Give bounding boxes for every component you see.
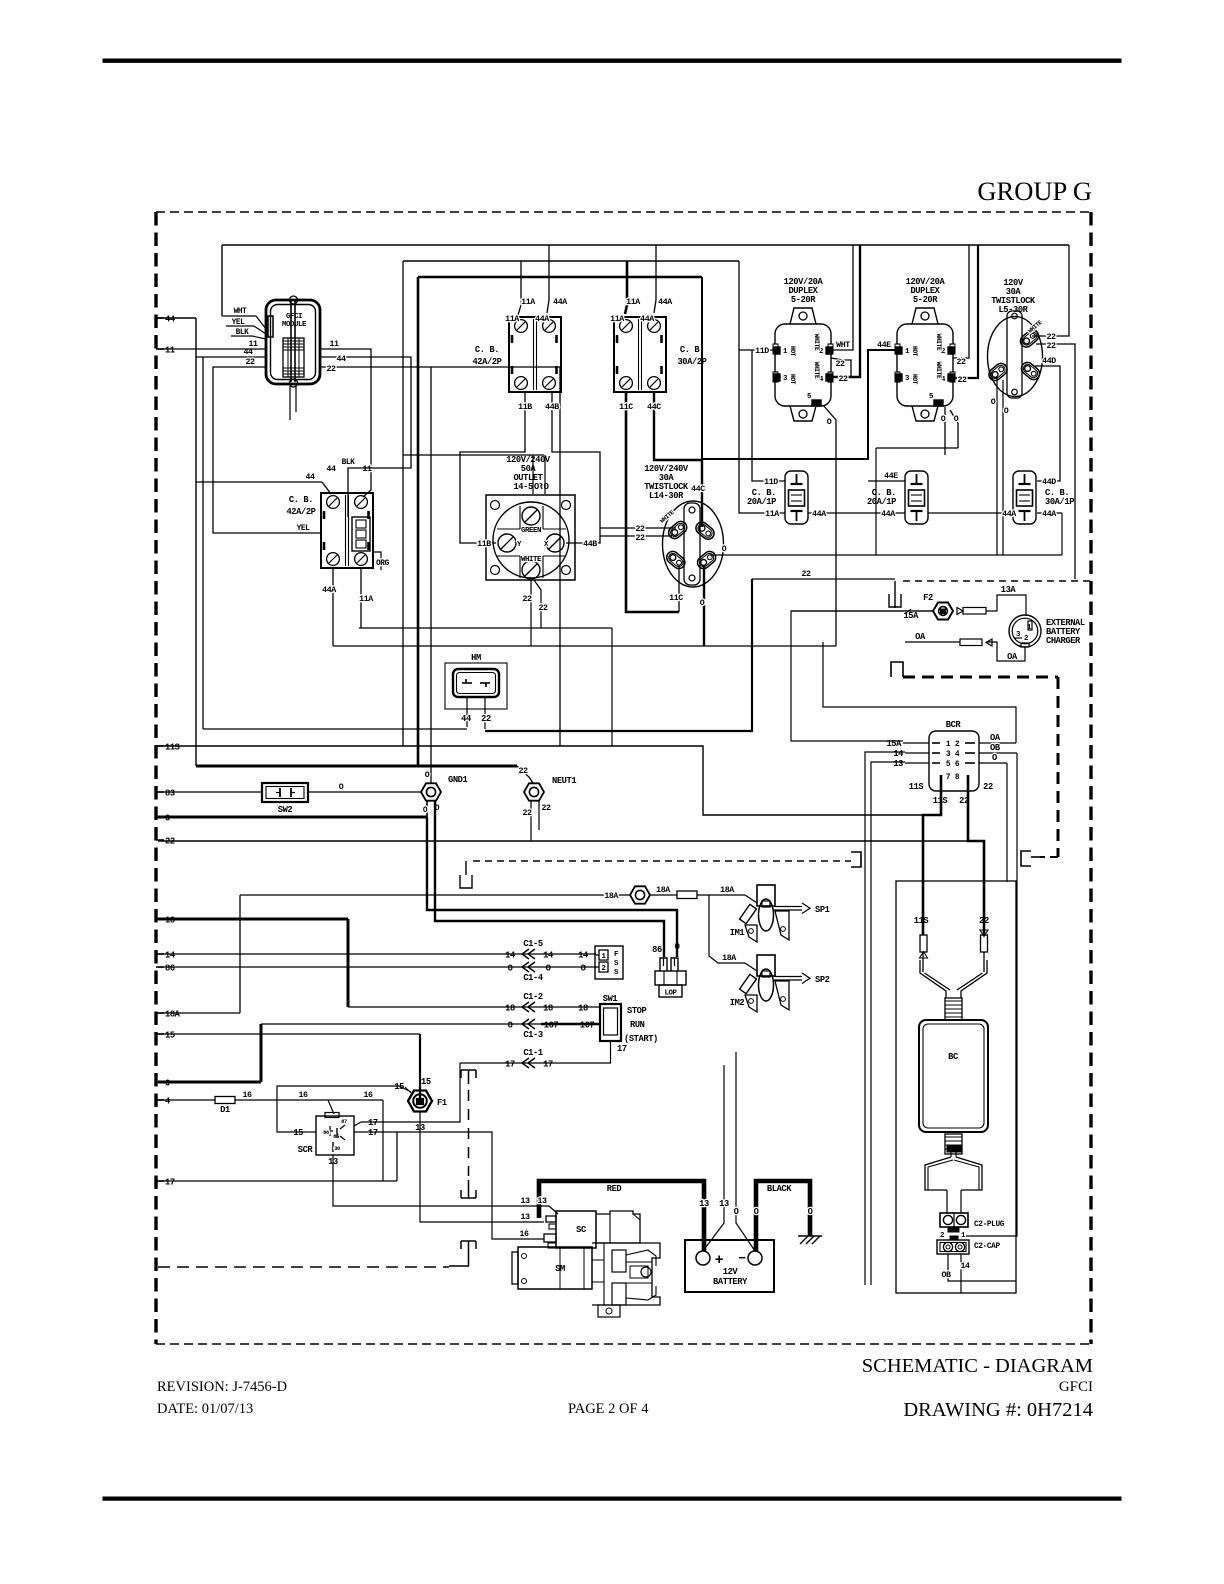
wire L5-30R 44D pin (1035, 366, 1060, 481)
svg-text:WHT: WHT (836, 341, 850, 350)
wire outlet top feed (402, 261, 404, 746)
svg-text:86: 86 (165, 964, 175, 974)
svg-text:22: 22 (522, 809, 532, 818)
dashed return bottom left (158, 1266, 449, 1268)
fuse F2 arrow and element (957, 608, 963, 615)
ignition module IM1 capsule (759, 899, 774, 931)
svg-text:13: 13 (537, 1197, 547, 1206)
svg-text:5-20R: 5-20R (791, 295, 816, 305)
wire label BLK leader (231, 335, 252, 337)
svg-text:15: 15 (394, 1082, 404, 1092)
svg-text:44A: 44A (640, 315, 654, 324)
wire net 44E to breaker 20A/1P second (868, 480, 905, 482)
fuse element on 18A wire (677, 891, 697, 899)
svg-text:GREEN: GREEN (521, 527, 541, 535)
starter detail lines (592, 1259, 604, 1261)
twistlock L5-30R slot bottom-left (986, 361, 1009, 383)
svg-text:SCHEMATIC - DIAGRAM: SCHEMATIC - DIAGRAM (862, 1355, 1093, 1377)
wire net 11D down to breaker 20A/1P (752, 350, 785, 481)
left border net stub 0 (156, 816, 164, 818)
circuit breaker 42A/2P screws (515, 320, 528, 333)
svg-text:14: 14 (578, 951, 588, 961)
wire 15 row (158, 1033, 420, 1035)
connector C1-2 chevrons (522, 1002, 529, 1012)
wire border 44 net vertical (158, 317, 196, 319)
svg-text:GND1: GND1 (448, 775, 468, 785)
svg-text:44A: 44A (812, 510, 826, 519)
svg-text:11: 11 (329, 340, 339, 349)
wire L14-30R 0 to right (710, 554, 876, 556)
svg-text:44C: 44C (647, 403, 661, 412)
connector BCR pin row 3 4 (932, 752, 940, 754)
wire L14-30R ground pin heavy (703, 565, 705, 646)
svg-text:11D: 11D (764, 478, 778, 487)
svg-text:42A/2P: 42A/2P (472, 357, 501, 367)
connector BCR left pin labels (903, 742, 929, 744)
svg-text:11: 11 (165, 346, 175, 356)
svg-text:WHITE: WHITE (935, 334, 942, 351)
wire label WHT leader (222, 315, 256, 317)
fuse F1 holder (408, 1091, 432, 1112)
wire 18A to IM1 (697, 894, 745, 896)
svg-text:2: 2 (940, 1232, 944, 1240)
wire RED heavy (539, 1181, 704, 1251)
fuse element on 22 lead (981, 935, 988, 952)
connector BCR right pin labels (979, 742, 1016, 744)
connector C2-CAP (937, 1240, 969, 1254)
spark plug output arrow SP2 (774, 976, 802, 978)
svg-text:42A/2P: 42A/2P (286, 507, 315, 517)
wire border 17 net (158, 1180, 397, 1182)
schematic dashed border bottom (156, 1343, 1091, 1345)
GFCI module top mounting circle (290, 296, 298, 304)
circuit breaker 30A/2P divider (638, 319, 640, 390)
wire GND1 top vertical (430, 367, 432, 783)
svg-text:14: 14 (960, 1262, 970, 1271)
svg-text:1: 1 (946, 740, 951, 749)
svg-text:22: 22 (635, 534, 645, 543)
svg-text:44: 44 (326, 465, 336, 474)
svg-text:44A: 44A (658, 298, 672, 307)
svg-text:14: 14 (165, 951, 175, 961)
svg-text:SC: SC (576, 1225, 586, 1235)
svg-text:O: O (700, 599, 705, 608)
wire CB3 bottom 44A (332, 568, 334, 646)
outlet 14-50R face circle (493, 502, 569, 578)
svg-text:13A: 13A (1001, 585, 1017, 595)
connector C1-4 chevrons (522, 962, 529, 972)
svg-text:O: O (991, 398, 996, 407)
svg-text:11A: 11A (610, 315, 624, 324)
svg-text:18: 18 (543, 1004, 553, 1014)
twistlock L5-30R slot top-right (1018, 327, 1041, 349)
ignition module IM2 right flag (775, 981, 789, 1010)
wire duplex1 pin4 22 heavy (831, 245, 860, 377)
wire border 11 into GFCI (158, 348, 266, 350)
svg-text:13: 13 (520, 1197, 530, 1206)
svg-text:86: 86 (323, 1129, 329, 1136)
svg-text:4: 4 (955, 750, 960, 759)
svg-text:HOT: HOT (911, 346, 918, 357)
wire CB1 11A feed (518, 261, 521, 315)
connector BCR pin row 1 2 (932, 742, 940, 744)
svg-text:17: 17 (165, 1178, 175, 1188)
svg-text:20A/1P: 20A/1P (747, 497, 776, 507)
circuit breaker 30A/2P box (614, 317, 666, 392)
left border net stub 11S (156, 745, 164, 747)
wire duplex1 pin5 ground (823, 405, 836, 646)
wire NEUT1 bottom stubs (530, 801, 532, 841)
svg-text:22: 22 (635, 525, 645, 534)
outlet 14-50R plate (486, 495, 575, 580)
outlet 14-50R inner cross lines (497, 528, 520, 530)
stud NEUT1 (524, 783, 544, 800)
ignition module IM1 left flag (745, 925, 757, 942)
svg-text:2: 2 (601, 965, 605, 973)
svg-text:O: O (425, 771, 430, 780)
svg-text:44B: 44B (583, 540, 597, 549)
fuse element on 11S lead (920, 935, 927, 952)
svg-text:2: 2 (1024, 635, 1028, 643)
svg-text:GFCI: GFCI (286, 313, 302, 321)
svg-text:RED: RED (607, 1184, 622, 1194)
svg-text:11A: 11A (626, 298, 640, 307)
wire 0 bus heavy to GND1 (158, 816, 427, 819)
svg-text:STOP: STOP (627, 1006, 647, 1016)
duplex receptacle pins at 925 (896, 347, 902, 354)
wire 44 row to HM (203, 728, 467, 730)
svg-text:C2-PLUG: C2-PLUG (974, 1220, 1005, 1229)
svg-text:22: 22 (983, 782, 993, 792)
svg-text:11S: 11S (914, 916, 929, 926)
svg-text:F1: F1 (437, 1098, 447, 1108)
left border net stub 22 (156, 839, 164, 841)
svg-text:11S: 11S (909, 782, 924, 792)
svg-text:6: 6 (955, 760, 960, 769)
svg-text:44: 44 (461, 714, 471, 724)
wire stem to C2-PLUG (946, 1190, 948, 1213)
left border net stub 17 (156, 1180, 164, 1182)
schematic dashed border top (156, 211, 1091, 213)
wire BCR pin8 22 heavy (968, 775, 984, 935)
circuit breaker 20A/1P box (905, 471, 928, 524)
starter solenoid SC body (556, 1211, 596, 1248)
svg-text:44A: 44A (322, 586, 336, 595)
wire 44 from GFCI to CB3 fuse (320, 357, 411, 517)
svg-text:22: 22 (1046, 342, 1056, 351)
connector HM body (453, 669, 499, 697)
connector HM pins (462, 682, 472, 684)
svg-text:11A: 11A (505, 315, 519, 324)
wire 22 from GFCI long (320, 367, 560, 746)
svg-text:13: 13 (699, 1199, 709, 1209)
cable shield heavy dashed boundary right (891, 662, 903, 677)
svg-text:WHITE: WHITE (813, 362, 820, 379)
left border net stub 11 (156, 348, 164, 350)
svg-text:O: O (954, 415, 959, 424)
svg-text:IM2: IM2 (730, 998, 745, 1008)
relay SCR body (316, 1116, 354, 1155)
svg-text:OA: OA (915, 632, 926, 642)
svg-text:O: O (754, 1207, 759, 1217)
ignition module IM2 capsule (759, 969, 774, 1001)
svg-text:18A: 18A (604, 892, 618, 901)
svg-text:30A/1P: 30A/1P (1045, 497, 1074, 507)
wire net 11D from bus to duplex 1 (739, 261, 785, 513)
duplex receptacle bottom mounting tab at 925 (912, 406, 938, 421)
svg-text:15A: 15A (903, 611, 919, 621)
wire ORG stub at CB3 (372, 552, 381, 570)
svg-text:20A/1P: 20A/1P (867, 497, 896, 507)
wire 16 diagonal to SCR top pin (328, 1100, 334, 1114)
wire 18 bus heavy (158, 918, 348, 921)
svg-text:22: 22 (835, 360, 845, 369)
svg-text:C1-4: C1-4 (523, 973, 543, 983)
twistlock L5-30R center strap (1007, 311, 1022, 398)
svg-text:22: 22 (801, 570, 811, 579)
svg-text:44: 44 (305, 473, 315, 482)
svg-text:HOT: HOT (911, 374, 918, 385)
svg-text:14: 14 (505, 951, 515, 961)
wire CB1 44B down to outlet (552, 392, 600, 543)
svg-text:PAGE 2 OF 4: PAGE 2 OF 4 (568, 1401, 649, 1417)
external battery charger connector (1009, 615, 1041, 647)
svg-text:GFCI: GFCI (1059, 1379, 1093, 1395)
GFCI module lower terminal block (283, 338, 304, 377)
svg-text:13: 13 (520, 1213, 530, 1222)
circuit breaker 20A/1P internals (916, 474, 918, 484)
duplex receptacle body at 803 (775, 324, 831, 406)
svg-text:17: 17 (617, 1044, 627, 1054)
left border net stub 14 (156, 953, 164, 955)
svg-text:C1-5: C1-5 (523, 939, 543, 949)
svg-text:O: O (941, 415, 946, 424)
svg-text:11A: 11A (359, 595, 373, 604)
connector HM outline box (445, 663, 507, 709)
svg-text:17: 17 (543, 1060, 553, 1070)
wire top bus net 22a (222, 244, 1069, 246)
svg-text:44A: 44A (881, 510, 895, 519)
svg-text:WHT: WHT (234, 307, 248, 316)
svg-text:DATE: 01/07/13: DATE: 01/07/13 (157, 1401, 253, 1417)
svg-text:O: O (808, 1207, 813, 1217)
svg-text:SW2: SW2 (278, 805, 293, 815)
svg-text:OB: OB (941, 1271, 951, 1280)
wire 15A to F2 (791, 610, 933, 612)
twistlock L14-30R slot top-right (693, 520, 716, 542)
svg-text:F2: F2 (923, 593, 933, 603)
wire 4 16 row with D1 (158, 1099, 215, 1101)
svg-text:O: O (508, 964, 513, 974)
wire CB2 44C heavy down to L14-30R (654, 392, 702, 527)
wire CB2 11C heavy down to L14-30R (626, 392, 679, 612)
twistlock L14-30R body ellipse (663, 501, 724, 587)
switch SW2 pins (279, 788, 281, 797)
svg-text:C. B.: C. B. (475, 345, 499, 355)
svg-text:11C: 11C (619, 403, 633, 412)
ground symbol at battery negative (798, 1235, 822, 1237)
svg-text:O: O (827, 418, 832, 427)
svg-text:11: 11 (248, 340, 258, 349)
svg-text:YEL: YEL (297, 524, 311, 533)
wire 83 to SW2 (158, 791, 262, 793)
svg-text:44A: 44A (1042, 510, 1056, 519)
wire GFCI WHT feed vertical (221, 245, 223, 316)
svg-text:11S: 11S (165, 743, 180, 753)
svg-text:22: 22 (1046, 333, 1056, 342)
svg-text:7: 7 (946, 773, 951, 782)
circuit breaker 42A/2P screws (327, 496, 340, 509)
svg-text:SCR: SCR (298, 1145, 314, 1155)
schematic dashed border right (1089, 212, 1092, 1344)
ignition module IM2 left flag (745, 995, 757, 1012)
svg-text:86: 86 (652, 945, 662, 955)
svg-text:17: 17 (505, 1060, 515, 1070)
svg-text:OB: OB (990, 743, 1001, 753)
svg-text:3: 3 (946, 750, 951, 759)
svg-text:O: O (546, 964, 551, 974)
wire L5-30R ground pins (996, 376, 998, 555)
svg-text:17: 17 (368, 1118, 378, 1128)
cable shield dashed segment upper right (894, 594, 896, 608)
wire label YEL leader (226, 325, 254, 327)
diode D1 element (215, 1097, 235, 1104)
wire net row 766 heavy (196, 765, 517, 768)
svg-text:167: 167 (580, 1021, 595, 1031)
svg-text:LOP: LOP (664, 990, 677, 998)
wire 15 branch to SCR (277, 1086, 411, 1132)
left border net stub 18A (156, 1012, 164, 1014)
wire row 628 (359, 627, 612, 629)
page top rule (103, 59, 1121, 62)
svg-text:11A: 11A (765, 510, 779, 519)
svg-text:16: 16 (298, 1091, 308, 1100)
svg-text:BC: BC (948, 1052, 958, 1062)
twistlock L14-30R slot bottom-right (695, 549, 718, 571)
sensor LOP prongs (660, 958, 667, 971)
wire 13A from F2 fuse (986, 595, 1026, 616)
svg-text:22: 22 (326, 365, 336, 374)
wire 11 from GFCI to CB3 (320, 349, 371, 497)
svg-text:11C: 11C (669, 594, 683, 603)
svg-text:O: O (992, 753, 997, 763)
wire vertical 383 (382, 1100, 384, 1181)
wire 0A to left (905, 641, 960, 643)
starter motor drive housing (592, 1243, 660, 1305)
wire C1-1 row 17 (460, 1062, 611, 1064)
wire SCR 13 to starter (333, 1155, 558, 1214)
twistlock L14-30R slot top-left (666, 519, 689, 541)
connector BCR pin row 5 6 (932, 762, 940, 764)
left border net stub 15 (156, 1033, 164, 1035)
wire 86 row with C1-4 (158, 966, 596, 968)
connector C1-3 chevrons (522, 1019, 529, 1029)
svg-text:44A: 44A (1002, 510, 1016, 519)
wire 14 row with C1-5 (158, 953, 596, 955)
svg-text:O: O (1004, 407, 1009, 416)
circuit breaker 42A/2P box (321, 493, 373, 568)
circuit breaker 30A/1P internals (1024, 474, 1026, 484)
circuit breaker 42A/2P box (509, 317, 561, 392)
svg-text:22: 22 (538, 604, 548, 613)
svg-text:C. B.: C. B. (289, 495, 313, 505)
duplex receptacle bottom mounting tab at 803 (790, 406, 816, 421)
wire NEUT1 top diag (517, 766, 533, 783)
svg-text:44: 44 (165, 315, 175, 325)
wire 18 row with C1-2 (348, 1006, 600, 1008)
svg-text:GROUP G: GROUP G (977, 176, 1092, 206)
duplex receptacle top mounting tab at 803 (790, 308, 816, 324)
svg-text:C1-1: C1-1 (523, 1048, 543, 1058)
spark plug output arrow SP1 (774, 906, 802, 908)
left border net stub 0 (156, 1081, 164, 1083)
ignition module IM1 bolt (740, 904, 757, 923)
svg-text:12V: 12V (723, 1267, 739, 1277)
wire CB3 bottom 11A (360, 568, 362, 628)
svg-text:8: 8 (955, 773, 960, 782)
wire 22 left of GFCI to YEL (213, 367, 321, 533)
BC outer enclosure box (896, 881, 1016, 1293)
wire top bus net 44 heavy (418, 276, 702, 278)
svg-text:44C: 44C (691, 485, 705, 494)
svg-text:18: 18 (578, 1004, 588, 1014)
svg-text:ORG: ORG (376, 559, 390, 568)
fuse element on 0A wire (960, 639, 982, 646)
wire 44 into GFCI (196, 356, 266, 358)
stud (630, 886, 650, 903)
wire duplex1 pin2 22 (831, 358, 851, 377)
svg-text:18A: 18A (720, 886, 734, 895)
svg-text:WHITE: WHITE (935, 362, 942, 379)
transformer blob below coil (947, 1145, 961, 1152)
wire SW2 to GND1 (308, 791, 421, 793)
svg-text:BCR: BCR (946, 720, 962, 730)
svg-text:22: 22 (541, 804, 551, 813)
svg-text:11B: 11B (477, 540, 491, 549)
wire L5-30R 22 pins (1032, 245, 1069, 336)
circuit breaker 42A/2P divider (533, 319, 535, 390)
wire merge yoke above BC (920, 960, 946, 998)
svg-text:44: 44 (336, 355, 346, 364)
svg-text:HOT: HOT (789, 374, 796, 385)
battery feed wires thin (703, 1065, 724, 1251)
wire BCR 0 stub down (1006, 763, 1008, 882)
svg-text:44D: 44D (1042, 478, 1056, 487)
svg-text:167: 167 (544, 1021, 559, 1031)
twistlock L14-30R center strap (684, 503, 700, 585)
duplex receptacle pins at 803 (774, 347, 780, 354)
starter mounting foot (598, 1305, 620, 1317)
svg-text:HM: HM (471, 653, 481, 663)
GFCI module bottom mounting circle (290, 379, 298, 387)
wire 18A branch to IM2 (709, 895, 745, 963)
coil bundle below BC (945, 1134, 962, 1154)
ignition module IM1 right flag (775, 911, 789, 940)
wire CB1 44A feed (547, 245, 549, 313)
svg-text:O: O (734, 1207, 739, 1217)
svg-text:44D: 44D (1042, 357, 1056, 366)
connector C2-PLUG (940, 1213, 968, 1227)
circuit breaker 30A/2P screws (620, 320, 633, 333)
svg-text:C1-3: C1-3 (523, 1030, 543, 1040)
wire GND1 to LOP 86 net (435, 801, 664, 957)
starter motor SM left cap (512, 1252, 518, 1284)
svg-text:L14-30R: L14-30R (649, 491, 684, 501)
relay SCR internals (325, 1113, 339, 1118)
svg-text:44A: 44A (553, 298, 567, 307)
connector HM pin wires 44 22 (466, 697, 468, 727)
wire 0 167 row with C1-3 heavy (261, 1023, 541, 1025)
